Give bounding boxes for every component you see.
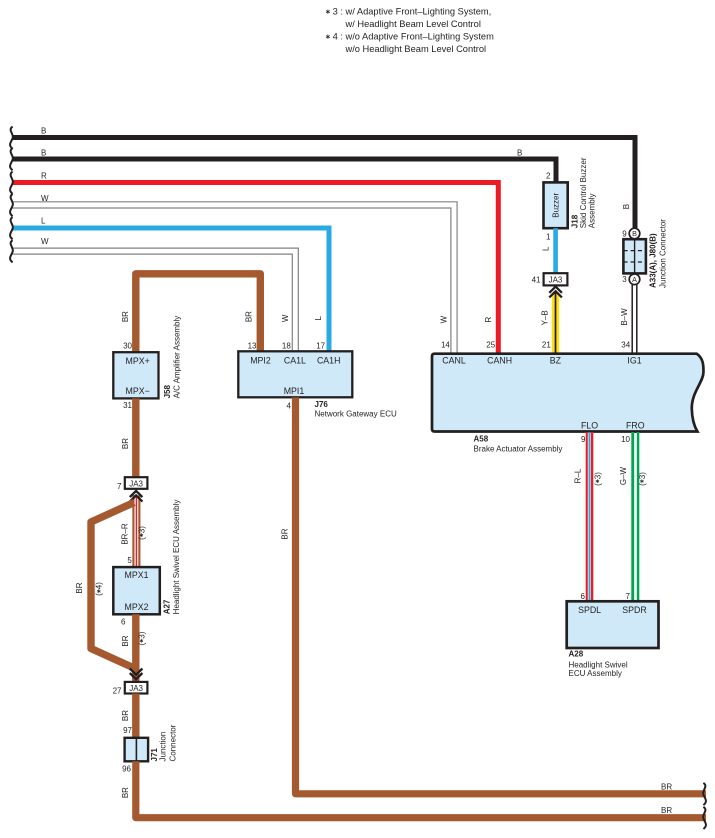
wire BR JA3-27 to J71	[132, 694, 139, 738]
svg-text:B: B	[632, 229, 637, 238]
svg-text:9: 9	[581, 435, 586, 444]
wire L cyan	[12, 228, 329, 353]
svg-text:97: 97	[123, 726, 132, 735]
svg-text:B: B	[41, 148, 46, 157]
svg-text:BR: BR	[121, 635, 130, 646]
svg-text:B: B	[622, 204, 631, 209]
continuation squiggle wire W1	[10, 194, 13, 216]
svg-text:MPX+: MPX+	[126, 356, 150, 366]
junction connector A33 circle A	[629, 274, 640, 285]
svg-text:B: B	[517, 148, 522, 157]
svg-text:2: 2	[546, 172, 551, 181]
svg-text:Assembly: Assembly	[588, 194, 597, 229]
svg-text:JA3: JA3	[549, 275, 563, 284]
svg-text:BR–R: BR–R	[121, 523, 130, 545]
svg-text:L: L	[41, 217, 46, 226]
ECU J76 Network Gateway box	[238, 351, 352, 397]
svg-text:Buzzer: Buzzer	[552, 193, 561, 218]
continuation squiggle BR wire1 right	[703, 783, 706, 805]
junction A33 dashed dividers	[623, 251, 646, 262]
buzzer J18 box	[544, 182, 568, 228]
svg-text:Y–B: Y–B	[541, 310, 550, 325]
svg-text:W: W	[440, 315, 449, 323]
svg-text:13: 13	[248, 342, 257, 351]
svg-text:IG1: IG1	[627, 355, 641, 365]
svg-text:6: 6	[121, 617, 126, 626]
svg-text:Junction Connector: Junction Connector	[658, 219, 667, 288]
svg-text:MPX1: MPX1	[125, 570, 149, 580]
svg-text:R: R	[41, 171, 47, 180]
svg-text:JA3: JA3	[129, 479, 143, 488]
svg-text:CA1L: CA1L	[284, 355, 306, 365]
svg-text:ECU Assembly: ECU Assembly	[569, 669, 622, 678]
svg-text:( 3): ( 3)	[593, 472, 602, 486]
continuation squiggle wire L	[10, 217, 13, 239]
svg-text:MPI1: MPI1	[284, 386, 305, 396]
svg-text:FLO: FLO	[581, 420, 598, 430]
svg-text:SPDR: SPDR	[622, 605, 646, 615]
svg-text:A33(A), J80(B): A33(A), J80(B)	[649, 233, 658, 288]
svg-text:BR: BR	[281, 528, 290, 539]
svg-text:( 3): ( 3)	[137, 631, 146, 645]
svg-text:Headlight Swivel ECU Assembly: Headlight Swivel ECU Assembly	[172, 500, 181, 615]
svg-text:B: B	[41, 126, 46, 135]
svg-text:31: 31	[123, 401, 132, 410]
svg-text:G–W: G–W	[619, 466, 628, 485]
svg-text:BR: BR	[121, 311, 130, 322]
wire B1 black horizontal top	[12, 138, 635, 229]
svg-text:CANH: CANH	[487, 355, 512, 365]
continuation squiggle wire B1	[10, 127, 13, 149]
svg-text:9: 9	[622, 229, 627, 238]
connector JA3-7 box	[125, 477, 148, 489]
svg-text:3: 3	[622, 275, 627, 284]
svg-text:BR: BR	[661, 782, 672, 791]
svg-text:7: 7	[117, 482, 122, 491]
svg-text:BZ: BZ	[550, 355, 562, 365]
wire W1 white double line	[12, 202, 457, 353]
svg-text:B–W: B–W	[620, 308, 629, 326]
J71 inner divider	[135, 738, 137, 762]
svg-text:96: 96	[122, 764, 131, 773]
svg-text:Brake Actuator Assembly: Brake Actuator Assembly	[474, 444, 563, 453]
svg-text:w/o Headlight Beam Level Contr: w/o Headlight Beam Level Control	[345, 44, 487, 54]
chevron pair at JA3-7	[130, 491, 143, 502]
junction connector A33 box	[623, 239, 646, 273]
ECU A27 Headlight Swivel box	[113, 567, 160, 614]
svg-text:L: L	[314, 316, 323, 321]
chevron pair down at JA3-27	[130, 669, 143, 680]
svg-text:MPX−: MPX−	[126, 386, 150, 396]
svg-text:BR: BR	[121, 710, 130, 721]
wire L buzzer to JA3	[553, 228, 558, 273]
svg-text:A58: A58	[474, 435, 489, 444]
wire BR branch (*4)	[91, 503, 134, 669]
svg-text:JA3: JA3	[129, 684, 143, 693]
wire BR J76 pin4 to bottom right	[296, 397, 707, 793]
wire R-L red/blue/red	[586, 432, 588, 601]
svg-text:R–L: R–L	[573, 468, 582, 483]
connector JA3-27 box	[125, 682, 148, 694]
wire B2 black to buzzer	[12, 159, 556, 183]
wire BR J71 to bottom right	[136, 761, 706, 817]
ECU J58 A/C Amplifier box	[113, 352, 158, 398]
wire G-W green double	[631, 432, 634, 601]
connector JA3-41 box	[544, 273, 568, 285]
svg-text:( 3): ( 3)	[638, 472, 647, 486]
svg-text:BR: BR	[121, 438, 130, 449]
svg-text:Junction: Junction	[159, 732, 168, 762]
svg-text:34: 34	[621, 341, 630, 350]
wire BR J58 pin31 to JA3-7	[132, 398, 139, 477]
svg-text:17: 17	[316, 342, 325, 351]
svg-text:6: 6	[581, 592, 586, 601]
wire BR J58 pin30 to J76 pin13	[136, 274, 260, 352]
svg-text:4 : w/o Adaptive Front–Lightin: 4 : w/o Adaptive Front–Lighting System	[333, 32, 494, 42]
svg-text:BR: BR	[244, 311, 253, 322]
ECU A28 Headlight Swivel box	[567, 601, 659, 648]
svg-text:BR: BR	[75, 582, 84, 593]
svg-text:A/C Amplifier Assembly: A/C Amplifier Assembly	[173, 316, 182, 399]
svg-text:25: 25	[486, 341, 495, 350]
continuation squiggle wire W2	[10, 240, 13, 262]
junction connector A33 circle B	[629, 228, 640, 239]
svg-text:MPX2: MPX2	[125, 602, 149, 612]
svg-text:BR: BR	[661, 806, 672, 815]
svg-text:CA1H: CA1H	[317, 355, 340, 365]
svg-text:A: A	[632, 275, 637, 284]
wire B-W double line	[632, 284, 637, 352]
svg-text:30: 30	[123, 342, 132, 351]
svg-text:A28: A28	[569, 650, 584, 659]
svg-text:W: W	[41, 237, 49, 246]
svg-text:R: R	[484, 316, 493, 322]
svg-text:W: W	[41, 194, 49, 203]
svg-text:3 : w/ Adaptive Front–Lighting: 3 : w/ Adaptive Front–Lighting System,	[333, 7, 492, 17]
chevron pair at JA3-41	[549, 287, 562, 298]
continuation squiggle wire B2	[10, 148, 13, 170]
svg-text:( 4): ( 4)	[95, 582, 104, 596]
svg-text:41: 41	[532, 275, 541, 284]
svg-text:4: 4	[287, 401, 292, 410]
svg-text:A27: A27	[162, 599, 171, 614]
wire R red	[12, 183, 498, 353]
svg-text:SPDL: SPDL	[578, 605, 601, 615]
wire W2 white double line	[12, 248, 298, 352]
junction A33 inner vertical divider	[634, 239, 636, 273]
svg-text:10: 10	[621, 435, 630, 444]
svg-text:FRO: FRO	[626, 420, 645, 430]
svg-text:Network Gateway ECU: Network Gateway ECU	[315, 410, 397, 419]
svg-text:J76: J76	[315, 400, 329, 409]
continuation squiggle BR wire2 right	[703, 807, 706, 829]
svg-text:14: 14	[441, 341, 450, 350]
svg-text:1: 1	[546, 233, 551, 242]
svg-text:27: 27	[113, 687, 122, 696]
svg-text:CANL: CANL	[442, 355, 466, 365]
svg-text:18: 18	[282, 342, 291, 351]
wire BR-R brown/red stripe	[132, 495, 140, 567]
svg-text:7: 7	[626, 592, 631, 601]
svg-text:5: 5	[127, 556, 132, 565]
svg-text:( 3): ( 3)	[137, 526, 146, 540]
svg-text:BR: BR	[121, 787, 130, 798]
svg-text:Connector: Connector	[168, 724, 177, 761]
svg-text:MPI2: MPI2	[250, 355, 271, 365]
wire BR A27 pin6 down	[132, 614, 139, 682]
svg-text:L: L	[541, 246, 550, 251]
svg-text:W: W	[281, 314, 290, 322]
continuation squiggle wire R	[10, 172, 13, 194]
svg-text:21: 21	[542, 341, 551, 350]
ECU A58 Brake Actuator Assembly box	[432, 354, 703, 432]
svg-text:w/ Headlight Beam Level Contro: w/ Headlight Beam Level Control	[345, 19, 481, 29]
svg-text:J58: J58	[163, 385, 172, 399]
wire Y-B yellow	[552, 293, 559, 353]
junction connector J71 box	[125, 738, 149, 762]
